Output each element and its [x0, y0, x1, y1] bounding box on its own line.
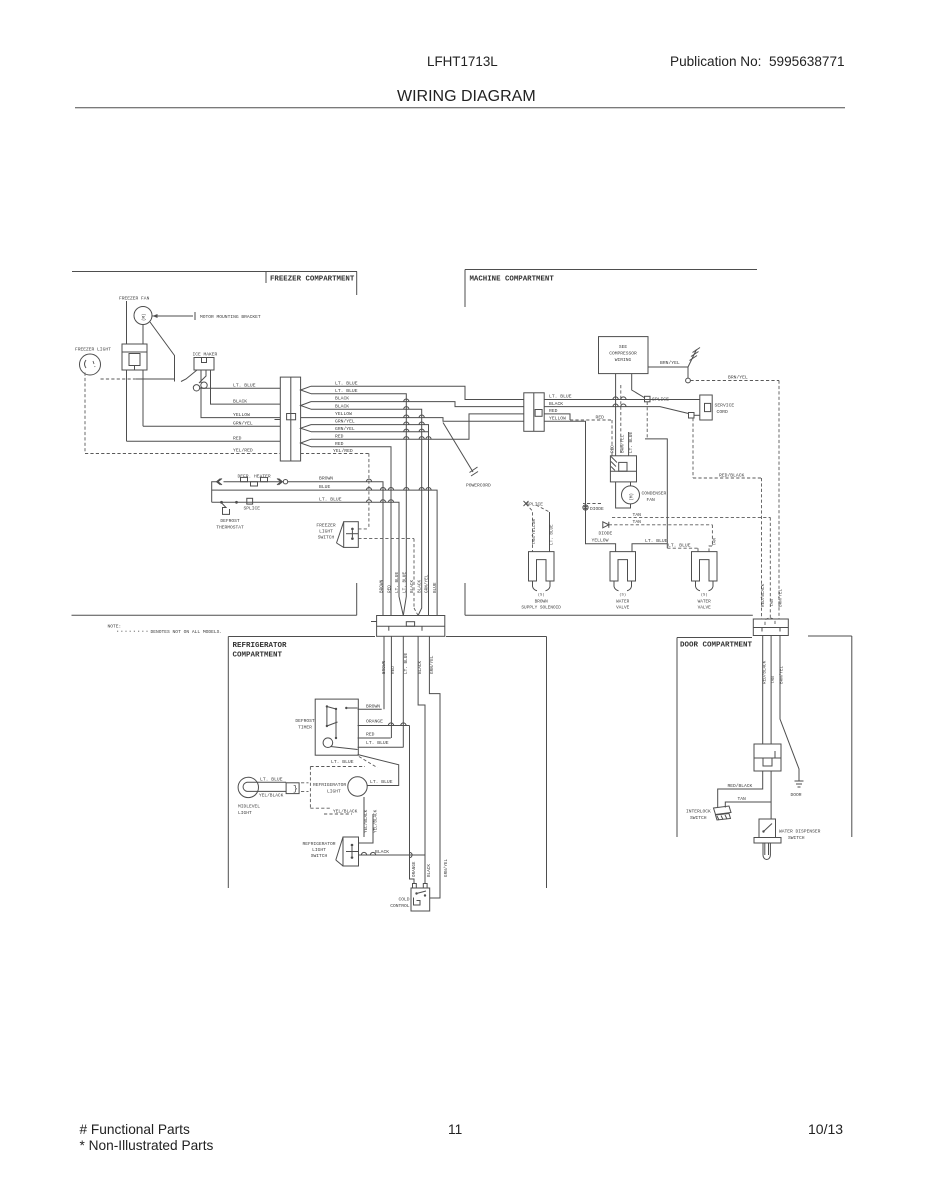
terminal block TB1 [280, 377, 300, 461]
wire lt.blue1 to TB2 [311, 386, 524, 399]
defrost heater element [224, 481, 281, 483]
svg-text:FREEZER COMPARTMENT: FREEZER COMPARTMENT [270, 276, 355, 284]
chassis ground machine [688, 350, 697, 368]
svg-text:10/13: 10/13 [808, 1121, 843, 1137]
refrigerator compartment right boundary [546, 637, 548, 889]
svg-text:TIMER: TIMER [298, 725, 312, 731]
svg-text:SUPPLY SOLENOID: SUPPLY SOLENOID [521, 605, 561, 610]
machine bottom boundary left tick [464, 583, 466, 615]
svg-text:LT. BLUE: LT. BLUE [370, 779, 393, 785]
svg-text:LT. BLUE: LT. BLUE [645, 538, 668, 544]
svg-text:DEFROST: DEFROST [220, 518, 240, 524]
wire timer to refrigerator light [358, 755, 399, 786]
svg-text:RED: RED [549, 408, 558, 414]
svg-text:DEFROST: DEFROST [295, 718, 315, 724]
svg-text:ORANGE: ORANGE [412, 861, 417, 877]
diode D1 circle [583, 505, 588, 510]
bumps machine wires [613, 397, 618, 400]
wire node to service cord [694, 414, 700, 416]
svg-text:FREEZER LIGHT: FREEZER LIGHT [75, 347, 111, 353]
wire red1 to TB2 [311, 414, 524, 439]
svg-text:SEE: SEE [619, 344, 628, 350]
wire grn/yel2 drop [311, 431, 429, 433]
svg-text:LIGHT: LIGHT [327, 789, 341, 795]
freezer light switch contacts [351, 528, 354, 531]
svg-text:RED: RED [611, 445, 616, 453]
svg-text:GRN/YEL: GRN/YEL [335, 426, 355, 432]
wire lt.blue dashed to right valve [666, 544, 668, 548]
compressor wiring box [599, 337, 649, 374]
wire blue heater [218, 490, 437, 615]
wire tan B drop to valve [709, 525, 712, 552]
svg-text:LFHT1713L: LFHT1713L [427, 54, 498, 69]
svg-text:YELLOW: YELLOW [549, 416, 566, 422]
svg-text:RED: RED [387, 585, 392, 593]
svg-text:RED/BLACK: RED/BLACK [728, 783, 753, 789]
terminal block TB2 [524, 393, 544, 432]
svg-text:MOTOR MOUNTING BRACKET: MOTOR MOUNTING BRACKET [200, 314, 261, 320]
heater connector chevrons left [217, 479, 223, 485]
ice maker wire 1 [181, 370, 197, 382]
svg-text:LT. BLUE: LT. BLUE [233, 383, 256, 389]
svg-text:SWITCH: SWITCH [788, 835, 805, 841]
svg-text:THERMOSTAT: THERMOSTAT [216, 525, 244, 531]
wire orange drop to cold control [410, 726, 415, 884]
machine compartment top boundary [465, 269, 757, 271]
svg-text:SERVICE: SERVICE [715, 402, 735, 408]
svg-text:COMPRESSOR: COMPRESSOR [609, 351, 637, 357]
heater connector chevrons right [277, 479, 283, 485]
svg-text:LIGHT: LIGHT [312, 847, 326, 853]
svg-text:SPLICE: SPLICE [527, 501, 544, 507]
refrigerator compartment left boundary [227, 637, 229, 889]
ice maker wire 2 [200, 370, 202, 383]
wire tan module down [770, 771, 772, 819]
wire red/black dashed horizontal [693, 477, 762, 479]
wire lt.blue corner down [645, 439, 667, 540]
svg-text:YELLOW: YELLOW [592, 538, 609, 544]
wire lt.blue2 drop [311, 394, 406, 616]
wire yel/red dashed to block1 [85, 453, 280, 455]
svg-text:BLACK: BLACK [427, 864, 432, 877]
wire heater crossover bumps [366, 479, 371, 482]
freezer compartment right tick [356, 272, 358, 296]
svg-text:YELLOW: YELLOW [233, 412, 250, 418]
svg-text:Publication No: 5995638771: Publication No: 5995638771 [670, 54, 845, 69]
svg-text:LT. BLUE: LT. BLUE [260, 777, 283, 783]
wires below TB3 [383, 636, 385, 709]
svg-text:FAN: FAN [647, 497, 656, 503]
wire relay to fan U [616, 482, 631, 508]
svg-text:YEL/BLACK: YEL/BLACK [259, 793, 284, 799]
svg-text:YEL/RED: YEL/RED [333, 448, 353, 454]
title underline [75, 107, 845, 109]
wire red/black below door conn [762, 636, 764, 745]
midlevel light circle [238, 777, 258, 797]
refrigerator light circle [348, 777, 367, 796]
svg-text:RED: RED [335, 433, 344, 439]
wire red2 drop [311, 447, 391, 616]
TB1 left tick [275, 419, 281, 421]
svg-text:NOTE:: NOTE: [108, 624, 122, 630]
defrost thermostat bimetal [222, 503, 230, 515]
svg-text:ICE MAKER: ICE MAKER [193, 352, 218, 358]
svg-text:LT. BLUE: LT. BLUE [395, 572, 400, 593]
wire black dashed drop to TB3 [413, 539, 415, 608]
svg-text:COLD: COLD [398, 897, 409, 903]
svg-text:SPLICE: SPLICE [244, 506, 261, 512]
wire red/black module to interlock [718, 771, 763, 808]
svg-text:BROWN: BROWN [382, 660, 387, 674]
svg-text:SWITCH: SWITCH [690, 815, 707, 821]
svg-text:BRN/YEL: BRN/YEL [780, 666, 785, 684]
wire brn/yel dashed drop to relay [620, 385, 622, 456]
wire relay to fan right [630, 482, 632, 486]
refrigerator light switch wedge [336, 837, 343, 860]
freezer compartment top boundary [72, 271, 357, 273]
svg-text:INTERLOCK: INTERLOCK [686, 809, 711, 815]
svg-text:WIRING DIAGRAM: WIRING DIAGRAM [397, 88, 536, 105]
brown wire connector circle [283, 480, 287, 484]
wire red to block1 [127, 440, 281, 442]
svg-text:BROWN: BROWN [319, 476, 333, 482]
midlevel connector [286, 783, 299, 794]
wire midlevel connector dashes [301, 782, 309, 784]
svg-text:RED: RED [366, 732, 375, 738]
wire grn/yel1 drop [311, 425, 429, 616]
wire dashed diode down [585, 504, 587, 506]
svg-text:DOOR: DOOR [791, 792, 802, 798]
svg-text:POWERCORD: POWERCORD [466, 483, 491, 489]
wire tan A drop to door [769, 517, 771, 619]
svg-text:DIODE: DIODE [590, 506, 604, 512]
defrost timer box [315, 699, 358, 755]
TB1 fanout black pair [301, 402, 311, 410]
wire dashed splice to solenoid left [526, 504, 533, 552]
svg-text:REFRIGERATOR: REFRIGERATOR [302, 841, 335, 847]
wire loop splice b [201, 382, 207, 388]
wire red/black dashed drop to door [761, 478, 763, 619]
wire dashed diagonal timer [359, 757, 378, 768]
svg-text:BLUE: BLUE [319, 484, 330, 490]
condenser fan motor circle [622, 486, 640, 504]
door compartment right boundary [851, 636, 853, 837]
terminal block TB3 [377, 616, 445, 637]
freezer bottom boundary right tick [356, 583, 358, 615]
svg-text:RED/BLACK: RED/BLACK [719, 472, 745, 478]
wire crossover bumps fanout [404, 415, 409, 418]
water valve 1 [610, 552, 636, 581]
svg-text:}: } [293, 785, 298, 794]
freezer fan connector plug [122, 344, 147, 352]
splice S1 box [645, 396, 651, 402]
refrigerator compartment top boundary right [446, 636, 547, 638]
door dispenser module [754, 744, 781, 771]
svg-text:BLACK: BLACK [418, 579, 423, 593]
wire ground drop to node [687, 367, 689, 378]
wire compressor right drop to splice [632, 374, 645, 398]
wire brn/yel below door conn [780, 636, 799, 782]
wire compressor to ground [648, 366, 688, 368]
wire fan diag to ice maker area [150, 322, 175, 382]
svg-text:GRN/YEL: GRN/YEL [233, 421, 253, 427]
svg-text:LT. BLUE: LT. BLUE [331, 759, 354, 765]
wire freezer-fan label drop [126, 301, 128, 344]
svg-text:LT. BLUE: LT. BLUE [550, 524, 555, 545]
machine compartment left tick [464, 270, 466, 308]
svg-text:LT. BLUE: LT. BLUE [404, 653, 409, 674]
svg-text:(M): (M) [142, 313, 147, 321]
wire yel/black right drop [359, 814, 374, 843]
svg-text:(S): (S) [538, 592, 545, 597]
water valve 2 [692, 552, 718, 581]
svg-text:SWITCH: SWITCH [311, 853, 328, 859]
wire lt.blue into relay [628, 432, 630, 456]
refrigerator light switch body [343, 837, 359, 866]
interlock switch symbol [714, 806, 732, 815]
svg-text:YEL/BLACK: YEL/BLACK [364, 809, 369, 833]
svg-text:DOOR COMPARTMENT: DOOR COMPARTMENT [680, 642, 753, 650]
wire tan B dashed [609, 524, 713, 526]
svg-text:DIODE: DIODE [599, 530, 613, 536]
svg-text:BROWN: BROWN [366, 703, 380, 709]
svg-text:RED/BLACK: RED/BLACK [763, 660, 768, 684]
svg-text:* Non-Illustrated Parts: * Non-Illustrated Parts [80, 1138, 214, 1153]
freezer light switch body [344, 522, 359, 548]
svg-text:DENOTES NOT ON ALL MODELS.: DENOTES NOT ON ALL MODELS. [151, 629, 223, 635]
svg-text:LT. BLUE: LT. BLUE [366, 740, 389, 746]
ice maker wire 3 [199, 370, 206, 383]
relay hatch [611, 457, 617, 463]
svg-text:TAN: TAN [738, 796, 747, 802]
svg-text:# Functional Parts: # Functional Parts [80, 1122, 190, 1137]
svg-text:WATER: WATER [698, 599, 712, 604]
svg-text:WATER: WATER [616, 599, 630, 604]
node connector circle [686, 378, 691, 383]
wire tan below door conn [770, 636, 772, 745]
freezer light switch wedge [337, 522, 344, 543]
wire switch dashed top [358, 528, 369, 530]
svg-text:LT. BLUE: LT. BLUE [335, 388, 358, 394]
svg-text:FREEZER: FREEZER [316, 523, 336, 529]
svg-text:RED: RED [391, 666, 396, 674]
powercord pointer [443, 423, 473, 473]
svg-text:BROWN: BROWN [380, 579, 385, 593]
svg-text:VALVE: VALVE [698, 605, 712, 610]
wire timer brown [358, 708, 382, 710]
splice S3 box [247, 498, 253, 504]
wire black TB2 right [544, 407, 688, 414]
freezer fan motor M1 circle [134, 307, 152, 325]
wire dashed splice to diode [583, 503, 601, 505]
svg-text:WIRING: WIRING [615, 357, 632, 363]
svg-text:LT. BLUE: LT. BLUE [629, 432, 634, 453]
door compartment top boundary right [808, 635, 852, 637]
svg-text:LT. BLUE: LT. BLUE [402, 572, 407, 593]
door connector block [753, 619, 788, 636]
svg-text:BROWN: BROWN [535, 599, 549, 604]
wire connector bottom horizontal [136, 378, 175, 380]
wire grn/yel to block1 [143, 425, 280, 427]
junction dot thermostat b [235, 501, 238, 504]
svg-text:GRN/YEL: GRN/YEL [444, 859, 449, 877]
svg-text:SWITCH: SWITCH [318, 535, 335, 541]
wire lt.blue splice drop [646, 402, 648, 439]
svg-text:(M): (M) [630, 493, 635, 501]
svg-text:GRN/YEL: GRN/YEL [425, 574, 430, 593]
svg-text:CONTROL: CONTROL [390, 903, 410, 909]
svg-text:GRN/YEL: GRN/YEL [430, 655, 435, 674]
wire fan to connector [142, 325, 144, 345]
wire yel/red dashed right of TB1 [301, 453, 369, 455]
svg-text:WATER DISPENSER: WATER DISPENSER [779, 829, 821, 835]
freezer compartment label left tick [265, 272, 267, 284]
cold control pins [413, 884, 417, 889]
wire dashed light box top [310, 766, 365, 768]
timer internal contacts [326, 707, 328, 727]
freezer light lamp circle [80, 354, 101, 375]
wire lt.blue to middle valve [632, 540, 667, 552]
wire yellow drop from ice maker [201, 387, 280, 418]
wire compressor left drop [615, 374, 617, 456]
timer motor circle [323, 738, 333, 748]
cold control internals [415, 892, 417, 894]
wire timer orange [358, 725, 410, 727]
door compartment top boundary left [677, 637, 752, 639]
TB1 fanout red pair [301, 439, 311, 447]
svg-text:LT. BLUE: LT. BLUE [319, 496, 342, 502]
wire black1 to TB2 [311, 402, 524, 407]
svg-text:(S): (S) [701, 592, 708, 597]
svg-text:REFRIGERATOR: REFRIGERATOR [233, 642, 288, 650]
svg-text:LIGHT: LIGHT [319, 529, 333, 535]
svg-text:BLACK: BLACK [418, 660, 423, 674]
TB1 notch [287, 414, 296, 420]
svg-text:LT. BLUE: LT. BLUE [668, 542, 691, 548]
wire heater left bracket [212, 482, 218, 503]
wire black2 drop [311, 409, 422, 615]
splice S2 mark [524, 501, 529, 506]
refrigerator compartment top boundary left [228, 636, 375, 638]
wire dashed light box left [309, 767, 311, 809]
wire red/black dashed from service cord [692, 418, 694, 478]
svg-text:TAN: TAN [713, 538, 718, 546]
brown supply solenoid valve [529, 552, 555, 581]
svg-text:RED: RED [596, 414, 605, 420]
svg-text:BLACK: BLACK [375, 849, 389, 855]
wire fan connector left down (red) [126, 370, 128, 441]
junction dot thermostat a [220, 501, 223, 504]
svg-text:BLACK: BLACK [410, 579, 415, 593]
wire yellow TB2 down [544, 421, 615, 551]
freezer light filament [85, 360, 87, 368]
svg-text:DEFR. HEATER: DEFR. HEATER [238, 473, 271, 479]
door connector ticks [761, 628, 763, 632]
svg-text:BRN/YEL: BRN/YEL [621, 434, 626, 453]
svg-text:TAN: TAN [770, 599, 775, 607]
wire lt.blue heater [212, 502, 404, 615]
wire dashed light box bottom [310, 807, 330, 809]
water dispenser switch body [759, 819, 776, 838]
TB1 fanout lt.blue pair [301, 386, 311, 394]
diode D2 symbol [603, 522, 609, 528]
door connector dashed notch [765, 618, 775, 625]
water dispenser switch plunger [763, 843, 770, 860]
wire lt.blue TB2 to service cord [544, 399, 700, 401]
svg-text:VALVE: VALVE [616, 605, 630, 610]
wire yel/black dashed [324, 813, 352, 815]
wire switch dashed bottom [358, 538, 414, 540]
wire lt.blue to block1 [200, 387, 281, 389]
relay overload assembly [610, 456, 636, 482]
TB2 notch [535, 410, 542, 417]
service cord body [700, 395, 712, 420]
refrigerator light switch contacts [351, 844, 354, 847]
svg-text:FREEZER FAN: FREEZER FAN [119, 296, 150, 302]
svg-text:RED: RED [335, 441, 344, 447]
wire timer red [358, 737, 391, 739]
wire refrigerator light drop [363, 797, 365, 837]
svg-text:RED/BLACK: RED/BLACK [761, 583, 766, 607]
wire yel/red dashed drop [368, 454, 370, 529]
freezer/machine bottom boundary left [72, 614, 357, 616]
TB3 notch [406, 622, 414, 627]
wire freezer light dashed to connector [101, 378, 136, 380]
wire brown heater [288, 482, 383, 616]
svg-text:MIDLEVEL: MIDLEVEL [238, 804, 260, 810]
svg-text:LT. BLUE: LT. BLUE [549, 394, 572, 400]
chassis ground door [795, 780, 804, 782]
svg-text:TAN: TAN [633, 519, 642, 525]
svg-text:11: 11 [448, 1122, 462, 1137]
svg-text:LIGHT: LIGHT [238, 810, 252, 816]
svg-text:BRN/YEL: BRN/YEL [660, 360, 680, 366]
wire tan A dashed [612, 516, 770, 518]
door compartment left boundary [676, 638, 678, 838]
wire black switch to cold control [359, 854, 426, 856]
svg-text:YELLOW: YELLOW [335, 411, 352, 417]
machine compartment bottom boundary [465, 614, 753, 616]
svg-text:RED: RED [233, 436, 242, 442]
note dotted sample [117, 630, 148, 632]
wire brn/yel dashed right [690, 380, 779, 382]
wire freezer light dashed drop [84, 373, 86, 454]
wire red dashed TB2 to relay [544, 414, 570, 420]
wire dashed splice to solenoid right [536, 505, 550, 512]
svg-text:YEL/RED: YEL/RED [233, 448, 253, 454]
svg-text:BRN/YEL: BRN/YEL [728, 375, 748, 381]
ice maker wire 4 (black drop) [211, 370, 281, 404]
TB3 ticks [388, 626, 390, 631]
svg-text:GRN/YEL: GRN/YEL [335, 419, 355, 425]
wire brn/yel dashed drop to door [778, 381, 780, 620]
svg-text:TAN: TAN [633, 512, 642, 518]
water dispenser switch base [754, 838, 781, 844]
svg-text:(S): (S) [619, 592, 626, 597]
service cord node square [689, 413, 695, 419]
svg-text:COMPARTMENT: COMPARTMENT [233, 652, 283, 660]
TB3 left step [371, 621, 377, 623]
svg-text:MACHINE COMPARTMENT: MACHINE COMPARTMENT [470, 276, 555, 284]
svg-text:CORD: CORD [717, 409, 728, 415]
svg-text:TAN/YELLOW: TAN/YELLOW [532, 519, 537, 545]
svg-text:BLUE: BLUE [433, 582, 438, 593]
motor mounting bracket pointer [153, 315, 194, 317]
svg-text:REFRIGERATOR: REFRIGERATOR [313, 782, 346, 788]
svg-text:LT. BLUE: LT. BLUE [335, 380, 358, 386]
wire loop splice a [193, 385, 199, 391]
wire timer lt.blue [358, 746, 404, 748]
